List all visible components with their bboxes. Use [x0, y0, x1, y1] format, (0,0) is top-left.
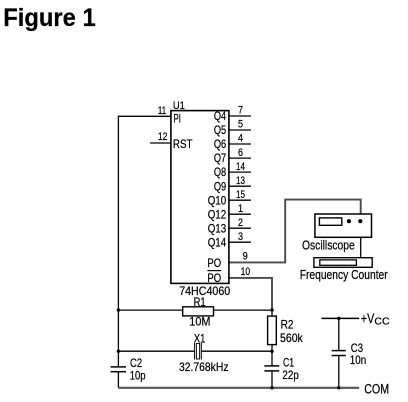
svg-text:Q7: Q7 — [214, 151, 227, 165]
svg-text:Q12: Q12 — [208, 207, 227, 221]
svg-text:10p: 10p — [130, 369, 146, 383]
svg-text:+V: +V — [361, 311, 375, 326]
svg-text:Q5: Q5 — [214, 123, 227, 137]
svg-text:COM: COM — [364, 381, 389, 396]
svg-text:9: 9 — [243, 251, 248, 263]
svg-text:U1: U1 — [173, 100, 185, 112]
svg-text:7: 7 — [238, 105, 243, 117]
svg-text:Q6: Q6 — [214, 137, 227, 151]
svg-text:Oscillscope: Oscillscope — [302, 237, 355, 252]
svg-text:32.768kHz: 32.768kHz — [179, 360, 229, 374]
svg-text:1: 1 — [238, 203, 243, 215]
svg-text:Q8: Q8 — [214, 165, 227, 179]
svg-text:Frequency Counter: Frequency Counter — [300, 267, 389, 282]
svg-text:10n: 10n — [350, 353, 366, 367]
svg-text:3: 3 — [238, 231, 243, 243]
svg-text:Q13: Q13 — [208, 221, 227, 235]
svg-text:560k: 560k — [280, 331, 304, 345]
svg-text:14: 14 — [236, 161, 245, 173]
svg-text:RST: RST — [173, 137, 193, 151]
svg-text:Figure 1: Figure 1 — [3, 4, 96, 32]
svg-text:R1: R1 — [194, 295, 206, 309]
svg-text:6: 6 — [238, 147, 243, 159]
svg-text:12: 12 — [158, 131, 168, 143]
svg-text:5: 5 — [238, 119, 243, 131]
svg-text:2: 2 — [238, 217, 243, 229]
svg-text:10: 10 — [241, 266, 251, 278]
svg-text:PO: PO — [207, 256, 221, 270]
svg-text:Q10: Q10 — [208, 193, 227, 207]
svg-text:10M: 10M — [189, 315, 210, 329]
svg-text:R2: R2 — [281, 318, 294, 332]
svg-text:X1: X1 — [194, 331, 206, 345]
svg-text:Q4: Q4 — [214, 109, 227, 123]
svg-text:13: 13 — [236, 175, 245, 187]
svg-text:4: 4 — [238, 133, 243, 145]
svg-text:CC: CC — [374, 316, 390, 327]
svg-text:Q9: Q9 — [214, 179, 227, 193]
svg-text:PO: PO — [207, 271, 221, 285]
svg-text:Q14: Q14 — [208, 235, 227, 249]
svg-text:15: 15 — [236, 189, 245, 201]
svg-text:11: 11 — [158, 105, 167, 117]
svg-text:22p: 22p — [282, 368, 299, 382]
svg-text:PI: PI — [174, 111, 181, 125]
